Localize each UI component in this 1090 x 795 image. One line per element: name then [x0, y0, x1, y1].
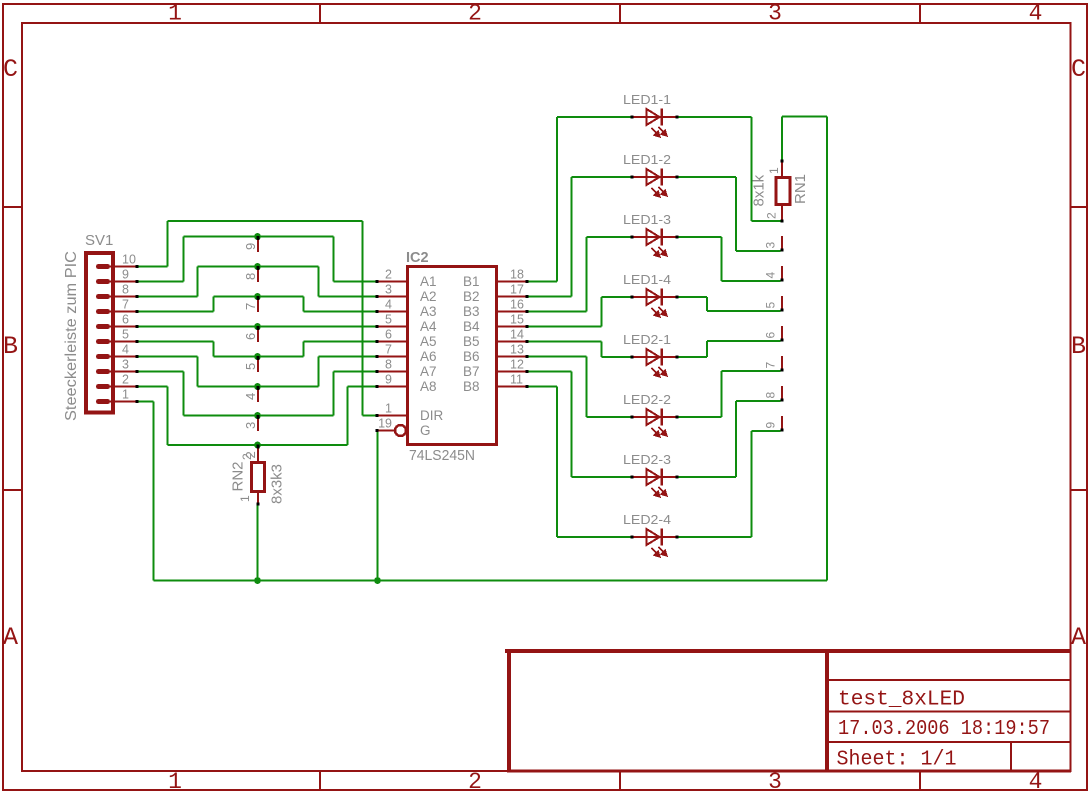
svg-text:B: B — [1071, 332, 1086, 361]
svg-text:8x1k: 8x1k — [751, 174, 768, 206]
svg-text:LED2-2: LED2-2 — [623, 392, 671, 407]
svg-text:6: 6 — [764, 332, 778, 339]
svg-text:2: 2 — [385, 268, 392, 282]
svg-text:8: 8 — [764, 392, 778, 399]
svg-text:A: A — [3, 623, 18, 652]
svg-text:3: 3 — [243, 422, 258, 429]
svg-text:8: 8 — [243, 273, 258, 280]
svg-text:B3: B3 — [463, 304, 480, 319]
svg-text:5: 5 — [385, 313, 392, 327]
svg-text:LED1-3: LED1-3 — [623, 212, 671, 227]
svg-text:A8: A8 — [420, 379, 437, 394]
svg-text:3: 3 — [764, 242, 778, 249]
svg-text:B1: B1 — [463, 274, 480, 289]
svg-text:IC2: IC2 — [406, 250, 429, 266]
svg-text:11: 11 — [510, 373, 523, 387]
svg-text:4: 4 — [243, 393, 258, 400]
svg-text:13: 13 — [510, 343, 524, 357]
svg-text:2: 2 — [468, 769, 482, 795]
svg-text:2: 2 — [240, 453, 254, 460]
svg-text:4: 4 — [385, 298, 392, 312]
svg-text:7: 7 — [122, 298, 129, 312]
svg-text:3: 3 — [768, 1, 782, 27]
svg-text:4: 4 — [122, 343, 129, 357]
svg-text:A1: A1 — [420, 274, 437, 289]
svg-text:G: G — [420, 423, 431, 438]
svg-text:LED1-4: LED1-4 — [623, 272, 671, 287]
svg-text:4: 4 — [1029, 1, 1043, 27]
svg-text:15: 15 — [510, 313, 524, 327]
svg-text:RN1: RN1 — [792, 174, 809, 204]
svg-text:B2: B2 — [463, 289, 480, 304]
svg-text:9: 9 — [243, 243, 258, 250]
svg-text:1: 1 — [767, 167, 781, 174]
svg-text:5: 5 — [764, 302, 778, 309]
svg-text:74LS245N: 74LS245N — [409, 448, 475, 464]
svg-text:10: 10 — [122, 253, 136, 267]
svg-text:B: B — [3, 332, 18, 361]
svg-text:3: 3 — [385, 283, 392, 297]
svg-text:Sheet: 1/1: Sheet: 1/1 — [837, 749, 957, 772]
svg-text:5: 5 — [243, 363, 258, 370]
svg-text:DIR: DIR — [420, 408, 444, 423]
svg-text:A7: A7 — [420, 364, 437, 379]
svg-text:LED2-3: LED2-3 — [623, 452, 671, 467]
svg-text:7: 7 — [385, 343, 392, 357]
svg-text:A: A — [1071, 623, 1086, 652]
svg-text:C: C — [3, 55, 18, 84]
svg-text:14: 14 — [510, 328, 524, 342]
svg-text:B8: B8 — [463, 379, 480, 394]
svg-text:3: 3 — [768, 769, 782, 795]
svg-text:A6: A6 — [420, 349, 437, 364]
svg-text:7: 7 — [764, 362, 778, 369]
svg-text:9: 9 — [385, 373, 392, 387]
svg-text:17.03.2006 18:19:57: 17.03.2006 18:19:57 — [838, 718, 1050, 741]
svg-text:B6: B6 — [463, 349, 480, 364]
svg-text:A4: A4 — [420, 319, 437, 334]
svg-text:LED2-4: LED2-4 — [623, 512, 671, 527]
svg-text:16: 16 — [510, 298, 524, 312]
svg-text:5: 5 — [122, 328, 129, 342]
svg-text:4: 4 — [1029, 769, 1043, 795]
svg-text:2: 2 — [765, 212, 779, 219]
svg-text:1: 1 — [238, 495, 252, 502]
svg-text:C: C — [1071, 55, 1086, 84]
svg-text:A2: A2 — [420, 289, 437, 304]
svg-text:2: 2 — [122, 373, 129, 387]
svg-text:B4: B4 — [463, 319, 480, 334]
svg-text:1: 1 — [122, 388, 129, 402]
svg-text:4: 4 — [764, 272, 778, 279]
svg-text:18: 18 — [510, 268, 524, 282]
svg-text:7: 7 — [243, 303, 258, 310]
svg-text:RN2: RN2 — [230, 461, 247, 491]
svg-text:LED1-1: LED1-1 — [623, 92, 671, 107]
svg-text:9: 9 — [122, 268, 129, 282]
svg-text:B5: B5 — [463, 334, 480, 349]
svg-text:17: 17 — [510, 283, 524, 297]
svg-text:A3: A3 — [420, 304, 437, 319]
svg-text:LED2-1: LED2-1 — [623, 332, 671, 347]
svg-text:6: 6 — [243, 333, 258, 340]
svg-text:Steeckerleiste zum PIC: Steeckerleiste zum PIC — [63, 251, 80, 421]
svg-text:test_8xLED: test_8xLED — [838, 689, 965, 712]
svg-text:B7: B7 — [463, 364, 480, 379]
svg-text:3: 3 — [122, 358, 129, 372]
svg-text:SV1: SV1 — [85, 232, 113, 249]
svg-text:1: 1 — [385, 402, 392, 416]
svg-text:9: 9 — [764, 422, 778, 429]
svg-text:1: 1 — [168, 1, 182, 27]
svg-text:LED1-2: LED1-2 — [623, 152, 671, 167]
svg-text:A5: A5 — [420, 334, 437, 349]
svg-text:1: 1 — [168, 769, 182, 795]
svg-text:12: 12 — [510, 358, 524, 372]
svg-text:2: 2 — [468, 1, 482, 27]
svg-text:6: 6 — [385, 328, 392, 342]
svg-text:6: 6 — [122, 313, 129, 327]
svg-text:8: 8 — [122, 283, 129, 297]
svg-text:8: 8 — [385, 358, 392, 372]
svg-text:19: 19 — [378, 417, 392, 431]
svg-text:8x3k3: 8x3k3 — [269, 464, 286, 504]
